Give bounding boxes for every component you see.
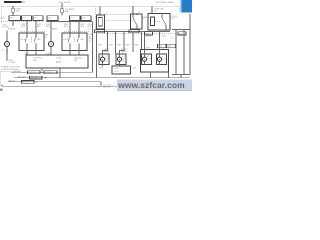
relay link dashed bbox=[105, 20, 136, 22]
node labels above switch 1 bbox=[22, 24, 42, 28]
feed wire right bbox=[151, 6, 164, 14]
svg-text:F4 1: F4 1 bbox=[34, 17, 37, 19]
wire label box G2a bbox=[158, 44, 167, 48]
long wire right 1 bbox=[171, 30, 177, 75]
svg-text:REAR: REAR bbox=[104, 50, 110, 53]
fuse box dashed border (left) bbox=[1, 6, 179, 22]
wire relay to bottom rail bbox=[96, 32, 98, 78]
bus wire row A bbox=[11, 70, 93, 74]
harness dashed boundary right bbox=[96, 33, 178, 35]
door lock switch S2 bbox=[62, 33, 87, 51]
motor M2 bbox=[49, 42, 54, 47]
wire feed CB bbox=[61, 3, 63, 15]
relay K2 bbox=[148, 14, 178, 31]
svg-text:PNK BLK: PNK BLK bbox=[45, 72, 53, 74]
wire to motor M4 bbox=[117, 32, 130, 54]
circuit breaker CB1 bbox=[61, 9, 75, 13]
motor M3 bbox=[99, 51, 111, 67]
svg-text:C5: C5 bbox=[1, 50, 3, 52]
motor M6 bbox=[157, 50, 167, 65]
svg-text:C303: C303 bbox=[146, 36, 151, 38]
wire label box right bbox=[129, 30, 139, 34]
branch wire 3 bbox=[141, 32, 143, 50]
relay contact K1 bbox=[131, 6, 150, 29]
bus wire row C bbox=[8, 81, 101, 84]
wire drop to switch 2 pin A bbox=[69, 21, 71, 33]
wire drop to switch 1 pin A bbox=[26, 21, 28, 33]
bus wire row B bbox=[14, 75, 190, 79]
svg-text:1: 1 bbox=[143, 19, 144, 21]
svg-text:LT GRN: LT GRN bbox=[9, 62, 16, 64]
svg-text:A4: A4 bbox=[59, 61, 61, 64]
riser wire labels bbox=[89, 34, 94, 43]
off-page arrow wire bbox=[100, 82, 112, 89]
motor M5 bbox=[142, 50, 152, 65]
ground G401 bbox=[6, 59, 15, 64]
bottom rail right bbox=[112, 77, 190, 79]
svg-text:C3: C3 bbox=[171, 38, 173, 40]
svg-text:UNL: UNL bbox=[80, 39, 84, 41]
motor M2 output wire bbox=[50, 47, 52, 56]
fuse F1 bbox=[12, 8, 21, 12]
svg-text:HOT AT ALL TIMES: HOT AT ALL TIMES bbox=[156, 1, 174, 4]
bus rail under junction boxes bbox=[46, 21, 92, 23]
branch wire 2 bbox=[132, 32, 134, 53]
door module U1 bbox=[26, 55, 88, 68]
motor M1 ground wire bbox=[6, 47, 8, 61]
wire drop C320 bbox=[2, 21, 14, 29]
motor M1 bbox=[5, 42, 10, 47]
tailgate module box bbox=[141, 50, 169, 78]
svg-text:F6 4: F6 4 bbox=[71, 17, 74, 19]
relay enclosure dashed edges bbox=[105, 14, 131, 30]
svg-text:JB 2: JB 2 bbox=[48, 17, 51, 19]
door lock switch S1 bbox=[19, 33, 44, 51]
svg-text:87: 87 bbox=[106, 13, 108, 15]
junction connector J5 bbox=[70, 16, 81, 21]
right wires junction bbox=[172, 75, 190, 78]
junction connector J3 bbox=[33, 16, 43, 21]
motor M3 labels bbox=[104, 49, 110, 53]
junction connector J4 bbox=[47, 16, 58, 21]
svg-text:C451 6: C451 6 bbox=[114, 71, 119, 73]
svg-text:DRIVER: DRIVER bbox=[8, 29, 16, 31]
svg-text:www.szfcar.com: www.szfcar.com bbox=[117, 80, 185, 90]
module output drop 1 bbox=[41, 68, 43, 71]
wire to motor M5 bbox=[145, 32, 151, 50]
wire drop to motor 2 bbox=[50, 21, 52, 42]
jamb dashed boundary left bbox=[20, 31, 90, 33]
bottom frame wire bbox=[2, 84, 117, 86]
svg-text:5: 5 bbox=[184, 2, 189, 12]
svg-text:C210: C210 bbox=[0, 18, 5, 20]
node labels above switch 2 bbox=[46, 24, 92, 30]
svg-text:C411: C411 bbox=[132, 68, 136, 70]
relay coil K1 bbox=[97, 6, 105, 29]
motor M4 labels bbox=[121, 49, 128, 53]
svg-text:LOCK: LOCK bbox=[63, 39, 69, 41]
junction connector J2 bbox=[22, 16, 32, 21]
svg-text:SWITCH: SWITCH bbox=[103, 87, 111, 89]
connector box under motors bbox=[112, 65, 131, 74]
junction connector J6 bbox=[81, 16, 91, 21]
wire to motor M3 bbox=[98, 32, 114, 54]
svg-text:GRY BLK: GRY BLK bbox=[31, 77, 39, 79]
corner artifact bottom-left bbox=[0, 89, 2, 91]
svg-text:GATE: GATE bbox=[161, 47, 167, 50]
motor M4 bbox=[116, 51, 128, 67]
relay rail bottom bbox=[96, 31, 170, 33]
svg-text:18: 18 bbox=[89, 41, 91, 43]
long wire right 3 bbox=[189, 14, 191, 75]
right feeder rail bbox=[172, 29, 190, 31]
svg-text:JB 12: JB 12 bbox=[10, 17, 14, 19]
svg-text:BLK WHT: BLK WHT bbox=[23, 82, 30, 84]
module name text bbox=[1, 67, 21, 71]
svg-text:UNL: UNL bbox=[37, 39, 41, 41]
page number 5 box bbox=[181, 0, 193, 12]
svg-text:F2 7: F2 7 bbox=[23, 17, 26, 19]
wire feed F1 bbox=[12, 6, 14, 16]
relay rail label box bbox=[95, 30, 105, 34]
wire to motor M6 bbox=[159, 31, 166, 50]
motor M1 feed wire bbox=[6, 31, 8, 42]
relay pin labels bbox=[98, 12, 140, 15]
wire label box on boundary bbox=[178, 32, 186, 36]
svg-text:C1: C1 bbox=[45, 37, 47, 39]
svg-text:HOT IN RUN: HOT IN RUN bbox=[59, 2, 71, 4]
wire label box on rail left bbox=[145, 32, 153, 36]
long wire right 2 bbox=[183, 30, 185, 75]
watermark band bbox=[117, 80, 192, 91]
svg-text:C410: C410 bbox=[99, 68, 104, 70]
svg-text:LOCK: LOCK bbox=[20, 39, 26, 41]
wire drop to switch 1 pin B bbox=[35, 21, 37, 33]
relay module dashed border (right) bbox=[96, 6, 180, 32]
title header bar bbox=[4, 1, 25, 3]
branch wire 1 bbox=[115, 32, 117, 54]
svg-text:PNK BLK: PNK BLK bbox=[29, 72, 37, 74]
svg-text:F8 11: F8 11 bbox=[82, 17, 86, 19]
wire label box G2b bbox=[167, 44, 176, 48]
switch output wires to module bbox=[27, 51, 79, 56]
svg-text:A6: A6 bbox=[59, 56, 61, 59]
junction connector J1 bbox=[9, 16, 21, 21]
svg-text:PASS: PASS bbox=[52, 28, 58, 31]
svg-text:30: 30 bbox=[98, 13, 100, 15]
svg-text:C2: C2 bbox=[88, 28, 90, 30]
left margin dashed edge bbox=[1, 71, 20, 87]
riser wire to relay module bbox=[92, 22, 94, 73]
svg-text:C450 8: C450 8 bbox=[114, 68, 119, 70]
connector ticks on ground wire bbox=[1, 50, 8, 52]
wire drop to switch 2 pin B bbox=[78, 21, 80, 33]
svg-text:REAR: REAR bbox=[121, 50, 127, 53]
svg-text:C304: C304 bbox=[161, 36, 166, 38]
connector label C512 bbox=[24, 54, 51, 56]
module output drop 2 bbox=[59, 68, 61, 78]
